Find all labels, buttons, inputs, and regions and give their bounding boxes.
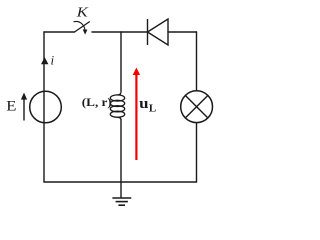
svg-text:i: i — [51, 53, 55, 68]
wire top segment diode to right corner — [168, 31, 197, 33]
svg-text:u: u — [139, 96, 148, 112]
wire middle vertical below inductor to ground — [120, 120, 122, 198]
diode D triangle — [148, 19, 169, 45]
wire left vertical — [43, 32, 45, 182]
svg-text:K: K — [76, 6, 89, 21]
wire top segment switch to diode — [92, 31, 148, 33]
switch K closing arc — [74, 21, 86, 30]
wire right vertical below lamp — [196, 123, 198, 183]
voltage arrow uL (red) — [133, 68, 140, 161]
current arrow i — [41, 57, 48, 64]
wire bottom horizontal — [44, 181, 197, 183]
voltage source E circle — [30, 91, 62, 123]
svg-text:(L, r): (L, r) — [82, 95, 112, 109]
svg-text:L: L — [149, 103, 156, 115]
lamp cross — [185, 96, 207, 118]
diode D cathode bar — [147, 19, 149, 45]
ground symbol — [112, 198, 131, 205]
E source arrow — [21, 93, 27, 121]
switch arc arrowhead — [83, 29, 88, 34]
wire middle vertical above inductor — [120, 32, 122, 91]
svg-text:E: E — [6, 99, 16, 115]
lamp circle — [181, 91, 213, 123]
switch K blade — [75, 22, 90, 33]
wire right vertical above lamp — [196, 32, 198, 91]
inductor (L,r) coil — [110, 91, 124, 120]
wire top segment source to switch — [44, 31, 75, 33]
